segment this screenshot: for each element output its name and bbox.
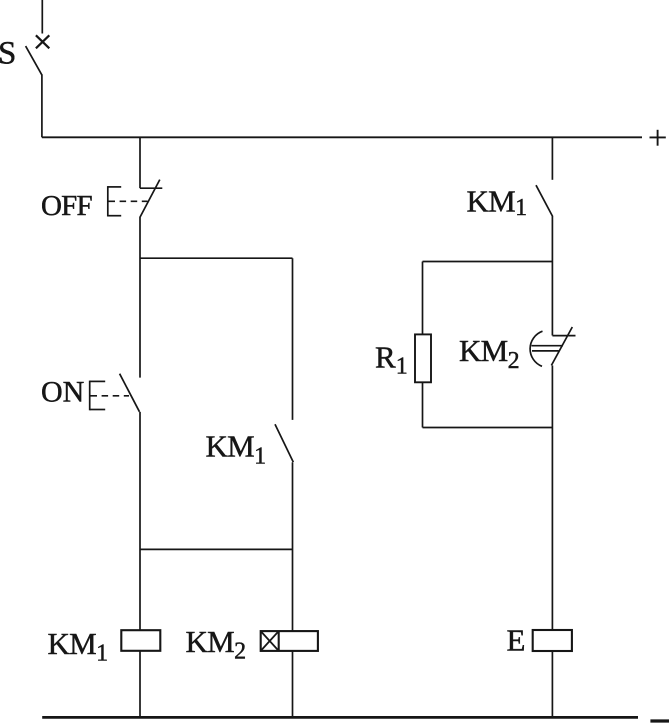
svg-text:ON: ON	[41, 376, 84, 409]
svg-text:S: S	[0, 36, 16, 72]
svg-text:OFF: OFF	[41, 190, 92, 222]
svg-text:E: E	[507, 622, 526, 657]
